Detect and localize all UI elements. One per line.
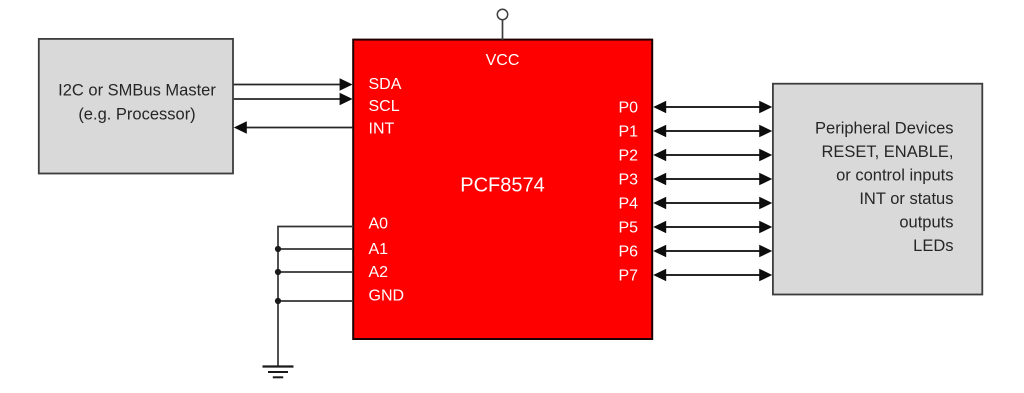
svg-text:SCL: SCL [369, 98, 400, 115]
svg-text:P3: P3 [619, 172, 639, 189]
svg-text:A0: A0 [369, 215, 389, 232]
svg-text:INT or status: INT or status [859, 190, 953, 208]
svg-text:P2: P2 [619, 148, 639, 165]
svg-text:A2: A2 [369, 264, 389, 281]
svg-text:INT: INT [369, 121, 395, 138]
svg-text:P6: P6 [619, 244, 639, 261]
svg-text:P7: P7 [619, 268, 639, 285]
svg-text:P5: P5 [619, 220, 639, 237]
svg-text:I2C or SMBus Master: I2C or SMBus Master [58, 82, 216, 100]
svg-text:Peripheral Devices: Peripheral Devices [815, 120, 953, 138]
svg-text:VCC: VCC [486, 52, 520, 69]
svg-text:P1: P1 [619, 124, 639, 141]
svg-text:P0: P0 [619, 100, 639, 117]
svg-text:RESET, ENABLE,: RESET, ENABLE, [821, 143, 953, 161]
svg-text:P4: P4 [619, 196, 639, 213]
svg-text:A1: A1 [369, 241, 389, 258]
svg-text:or control inputs: or control inputs [836, 167, 953, 185]
svg-text:PCF8574: PCF8574 [460, 174, 545, 196]
svg-text:outputs: outputs [899, 214, 953, 232]
svg-text:(e.g. Processor): (e.g. Processor) [78, 106, 195, 124]
svg-text:GND: GND [369, 287, 405, 304]
svg-text:SDA: SDA [369, 76, 402, 93]
svg-text:LEDs: LEDs [913, 237, 953, 255]
